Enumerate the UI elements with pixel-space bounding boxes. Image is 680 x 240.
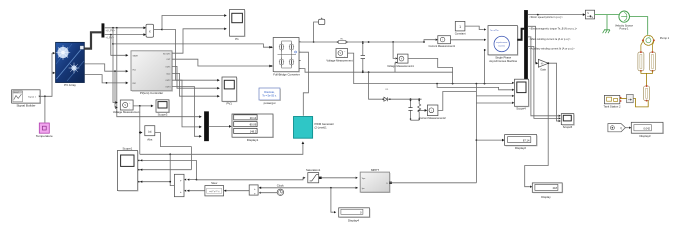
wire rail to Voltage Measurement1 input + (393, 42, 397, 59)
block Signal Builder (12, 90, 41, 108)
block Scope P (top) (230, 10, 245, 42)
wire Slew block output to Sum1 input 2 (187, 190, 207, 192)
wire bus output auxiliary winding current down to Scope5 (528, 47, 575, 120)
block Scope4 (machine scope) (515, 79, 529, 110)
wire Abs output to Scope1/Sum line (155, 133, 192, 147)
wire machine outputs to bus (thick) (517, 29, 524, 40)
capacitor branch C1 (vertical) (361, 42, 365, 72)
block Single Phase Asynchronous Machine (488, 26, 518, 63)
wire I_PV branch to controller GATE input (111, 35, 129, 57)
wire pipes join to pipe 3 (641, 71, 653, 86)
svg-text:Temperature: Temperature (36, 134, 53, 138)
wire down from rail to snubber row (369, 72, 382, 99)
block Sum1 (tall rectangle, flipped) (174, 174, 186, 196)
block Scope5 (small) (561, 114, 574, 130)
svg-text:-80.09: -80.09 (249, 123, 257, 127)
mux 2 (black bar) for Display1 (204, 112, 208, 142)
svg-text:Display: Display (541, 195, 551, 199)
block Display2 (505, 135, 537, 151)
wire I_PV from bus selector (105, 33, 146, 39)
wire tank to converter (hydraulic) (620, 98, 627, 100)
block Display (right) (532, 183, 562, 199)
svg-text:Display3: Display3 (639, 134, 650, 138)
wire rail to Current Measurement1 (423, 39, 438, 43)
wire PV - output to controller input 3 (85, 75, 129, 85)
svg-text:Group 1: Group 1 (13, 92, 19, 94)
svg-text:Scope3: Scope3 (158, 112, 168, 116)
svg-text:Display1: Display1 (247, 138, 259, 142)
svg-text:Gain: Gain (540, 68, 546, 72)
bus selector 1 (black bar) (102, 24, 105, 38)
wire bus output torque to Gain (528, 26, 578, 64)
wire controller OUT2 to mux Display1 input 2 (172, 80, 202, 128)
svg-text:<Auxiliary winding current Ib: <Auxiliary winding current Ib (A or p.u.… (529, 47, 575, 51)
wire branch to Scope4 input 2 (437, 84, 514, 91)
svg-text:Voltage Measurement1: Voltage Measurement1 (387, 64, 414, 68)
svg-text:Ipv: Ipv (362, 188, 365, 190)
svg-text:Pump 1: Pump 1 (620, 27, 629, 31)
svg-text:GATE: GATE (133, 54, 139, 57)
wire Current Measurement1 output to machine input 2 (451, 39, 487, 41)
wire controller OUT1 to scope PV1 input 2 (172, 66, 220, 89)
block Scope3 (156, 100, 169, 117)
wire converter to Velocity Source (physical) (595, 14, 619, 16)
block Display1 (3 values) (232, 114, 273, 142)
svg-text:Current Measurement2: Current Measurement2 (419, 116, 446, 120)
block MPPT (subsystem) (360, 168, 390, 193)
svg-text:Scope1: Scope1 (122, 146, 132, 150)
svg-text:Voltage Measurement: Voltage Measurement (113, 110, 140, 114)
svg-text:P1: P1 (235, 37, 239, 41)
svg-text:0.042: 0.042 (644, 126, 651, 130)
wire top rail from converter output + (299, 41, 424, 43)
svg-text:<Electromagnetic torque Te_B (: <Electromagnetic torque Te_B (N or p.u.)… (529, 26, 577, 30)
block Display4 (339, 208, 370, 223)
wire snubber top rail (391, 98, 422, 100)
svg-text:PV Array: PV Array (64, 83, 76, 87)
wire Gain output down to Scope5 input 3 (548, 63, 561, 122)
svg-text:sin(2*pi*f*u): sin(2*pi*f*u) (209, 191, 220, 193)
block Ideal Angular Velocity Source Pump 1 (615, 11, 633, 31)
svg-text:Slew: Slew (211, 181, 218, 185)
block Gain (triangle) (538, 59, 548, 71)
wire into Current Measurement2 (419, 109, 427, 112)
flow rate sensor tag (From) (608, 124, 626, 132)
pipe 3 (vertical) (644, 85, 650, 102)
svg-text:-K-: -K- (541, 62, 544, 65)
wire pipe 3 to tank loop (633, 99, 648, 107)
wire goto tag down to DC rail (313, 22, 319, 43)
svg-text:Display2: Display2 (515, 146, 526, 150)
svg-text:Current Measurement1: Current Measurement1 (428, 44, 455, 48)
block Clock (277, 184, 285, 196)
svg-text:S1OUT1: S1OUT1 (163, 53, 170, 55)
svg-text:powergui: powergui (264, 101, 276, 105)
wire Current Measurement2 output up to feedback (438, 92, 477, 111)
svg-text:MPPT: MPPT (371, 168, 379, 172)
wire controller S1OUT1 up to scope P input 2 (172, 27, 227, 53)
svg-text:|u|: |u| (148, 130, 151, 134)
wire mux output to Display1 (209, 125, 232, 128)
svg-text:OUT2: OUT2 (165, 80, 170, 82)
block Pump 1 (centrifugal pump) (642, 35, 670, 45)
svg-text:Scope4: Scope4 (516, 106, 526, 110)
block Voltage Measurement1 (387, 54, 414, 68)
svg-text:Ts = 5e-05 s.: Ts = 5e-05 s. (262, 95, 277, 98)
svg-text:Signal Builder: Signal Builder (16, 104, 35, 108)
wire DC voltage measurement output down to long feedback line (Scope4 in1) (348, 53, 515, 84)
wire long line from sum input 1 to Saturation1 (197, 177, 306, 180)
wire bottom rail from converter output - (299, 69, 453, 74)
pipe 1 (vertical) (638, 51, 644, 72)
svg-text:Display4: Display4 (348, 219, 359, 223)
wire Clock to Sum2 input 2 (259, 192, 278, 194)
mechanical reference (ground) green (603, 15, 610, 34)
svg-text:+: + (180, 190, 182, 194)
svg-text:Constant: Constant (455, 32, 466, 36)
wire PV + output to controller input 2 (85, 64, 129, 73)
block Current Measurement2 (419, 105, 446, 120)
wire rail to Voltage Measurement1 input - (395, 61, 398, 72)
goto tag small block above converter (319, 17, 325, 24)
wire product output to scope P input 1 (154, 14, 227, 30)
svg-text:+: + (180, 179, 182, 183)
wire sum output up to PWM line and Scope1 input 3 (138, 154, 174, 185)
block Slew (function) (205, 181, 224, 196)
svg-text:OUT3: OUT3 (165, 86, 170, 88)
wire Signal Builder riser to PV inputs (40, 52, 55, 97)
wire V_PV branch down to Voltage Measurement input 1 (112, 28, 118, 104)
wire Sum2 output to Slew input (224, 190, 249, 192)
wire controller OUT3 to mux Display1 input 3 (172, 87, 202, 138)
svg-text:<Rotor speed (wm/w in p.u.)>: <Rotor speed (wm/w in p.u.)> (529, 15, 563, 19)
wire DC+ long line to Full-Bridge Converter input 1 (113, 44, 272, 49)
svg-text:Scope5: Scope5 (563, 125, 573, 129)
wire pump ports down to pipes (hydraulic) (641, 41, 654, 52)
wire product power branch down to scope PV1 input 1 (162, 30, 220, 82)
svg-text:148.2: 148.2 (250, 129, 257, 133)
wire MPPT output up to Display2 and feedback (389, 84, 504, 184)
wire Voltage Measurement output to Scope3 (133, 105, 153, 108)
wire Saturation1 output to MPPT input 1 (319, 177, 358, 179)
block Product (P = V x I) (144, 24, 154, 37)
svg-text:machine: machine (498, 46, 505, 48)
wire V_PV from bus selector (105, 26, 146, 32)
wire feedback up to machine input 3 (484, 49, 486, 84)
svg-text:OUT1: OUT1 (165, 66, 170, 68)
svg-text:V: V (124, 103, 126, 107)
wire Constant to machine input 1 (465, 26, 486, 31)
svg-text:Vpv: Vpv (362, 178, 365, 180)
svg-text:Signal 1: Signal 1 (28, 96, 37, 98)
capacitor branch C2 (vertical) (408, 99, 412, 120)
block Current Measurement1 (428, 36, 455, 49)
wire Voltage Measurement1 output staircase to feedback line (408, 58, 453, 83)
svg-text:PI(wm) Controller: PI(wm) Controller (140, 91, 163, 95)
series RLC branch (inline) on top rail (337, 39, 348, 44)
svg-text:<V_PV>: <V_PV> (106, 29, 116, 32)
svg-text:PV1: PV1 (226, 102, 232, 106)
block Tank Station 2 (603, 95, 621, 108)
wire snubber bottom rail (411, 110, 421, 121)
block Voltage Measurement (DC link) (326, 49, 352, 63)
wire Voltage Measurement branch down to Abs and PWM line (139, 106, 143, 154)
svg-text:Full-Bridge Converter: Full-Bridge Converter (273, 72, 300, 76)
wire bus output rotor speed to Simulink-PS converter (528, 13, 586, 19)
wire sensor to Display3 (625, 127, 631, 129)
svg-text:Tm: Tm (490, 30, 493, 32)
pipe 2 (vertical) (650, 51, 656, 72)
block PI(wm) Controller (subsystem) (131, 51, 172, 95)
svg-text:Voltage Measurement: Voltage Measurement (326, 59, 352, 63)
wire controller OUT to converter g input (172, 59, 272, 67)
wire MPPT riser taps to Scope4 inputs 3 and 4 (476, 95, 514, 104)
svg-text:1: 1 (459, 25, 461, 29)
wire controller Gate to scope PV1 input 3 (172, 73, 220, 97)
wire Temperature riser (44, 96, 46, 122)
svg-text:20.14: 20.14 (250, 116, 257, 120)
wire net V line into Scope1 input 1 and to sum (138, 159, 197, 180)
block Full-Bridge Converter (271, 38, 301, 77)
block Scope PV1 (222, 77, 237, 106)
wire bus output main winding current down to Scope5 (528, 37, 571, 117)
block Constant (455, 21, 466, 35)
svg-text:87.14: 87.14 (523, 138, 530, 142)
wire converter port to PWM generator (gate path) (299, 52, 308, 115)
block Temperature (constant) (36, 123, 53, 138)
block Scope1 (flipped, 3 inputs on right) (117, 146, 138, 191)
wire long ramp line to Sum2 input 1 and MPPT input 2 (259, 187, 358, 189)
svg-text:asynchronous: asynchronous (496, 42, 507, 44)
svg-text:(2-Level)1: (2-Level)1 (315, 126, 328, 130)
svg-text:PWM Generator: PWM Generator (315, 122, 335, 126)
block Voltage Measurement (113, 100, 140, 114)
block PS-Simulink converter (grey, near tank) (627, 94, 634, 102)
wire Velocity Source to Pump (mechanical green) (630, 17, 648, 35)
svg-text:218: 218 (553, 186, 558, 190)
block Abs (145, 126, 155, 142)
block Display3 (631, 122, 663, 138)
wire PV m output to Bus Selector (thick measurement bus) (84, 32, 101, 48)
svg-text:Saturation1: Saturation1 (306, 168, 321, 172)
wire long line to PWM Generator input (140, 141, 304, 155)
diode D1 (382, 89, 391, 101)
svg-text:Pump 1: Pump 1 (660, 36, 670, 40)
block Simulink-PS Converter (585, 10, 594, 19)
svg-text:Discrete,: Discrete, (264, 90, 275, 94)
resistor branch R2 (vertical) (418, 99, 421, 120)
block Sum2 (flipped) (249, 185, 261, 196)
block PV Array (56, 42, 85, 87)
wire branch to Voltage Measurement input 2 (115, 71, 118, 109)
wire branch down to Display4 (331, 188, 336, 214)
svg-text:Asynchronous Machine: Asynchronous Machine (489, 59, 517, 63)
wire Gain branch down to Display block (525, 62, 549, 188)
svg-text:Abs: Abs (147, 138, 153, 142)
svg-text:Tank Station 2: Tank Station 2 (603, 104, 621, 108)
block powergui (259, 88, 280, 105)
wire net into Scope1 input 2 from Abs line (138, 147, 191, 171)
wire V_PV down to mux Display1 input 1 (117, 28, 202, 118)
block Saturation1 (306, 168, 321, 183)
svg-text:Clock: Clock (277, 184, 285, 188)
svg-text:Gate: Gate (166, 72, 170, 75)
bus selector right (black bar) (524, 10, 527, 80)
svg-text:<Main winding current Ia (A or: <Main winding current Ia (A or p.u.)> (529, 37, 571, 41)
block PWM Generator (2-Level)1 (teal) (294, 117, 335, 139)
svg-text:Q: Q (620, 127, 622, 130)
